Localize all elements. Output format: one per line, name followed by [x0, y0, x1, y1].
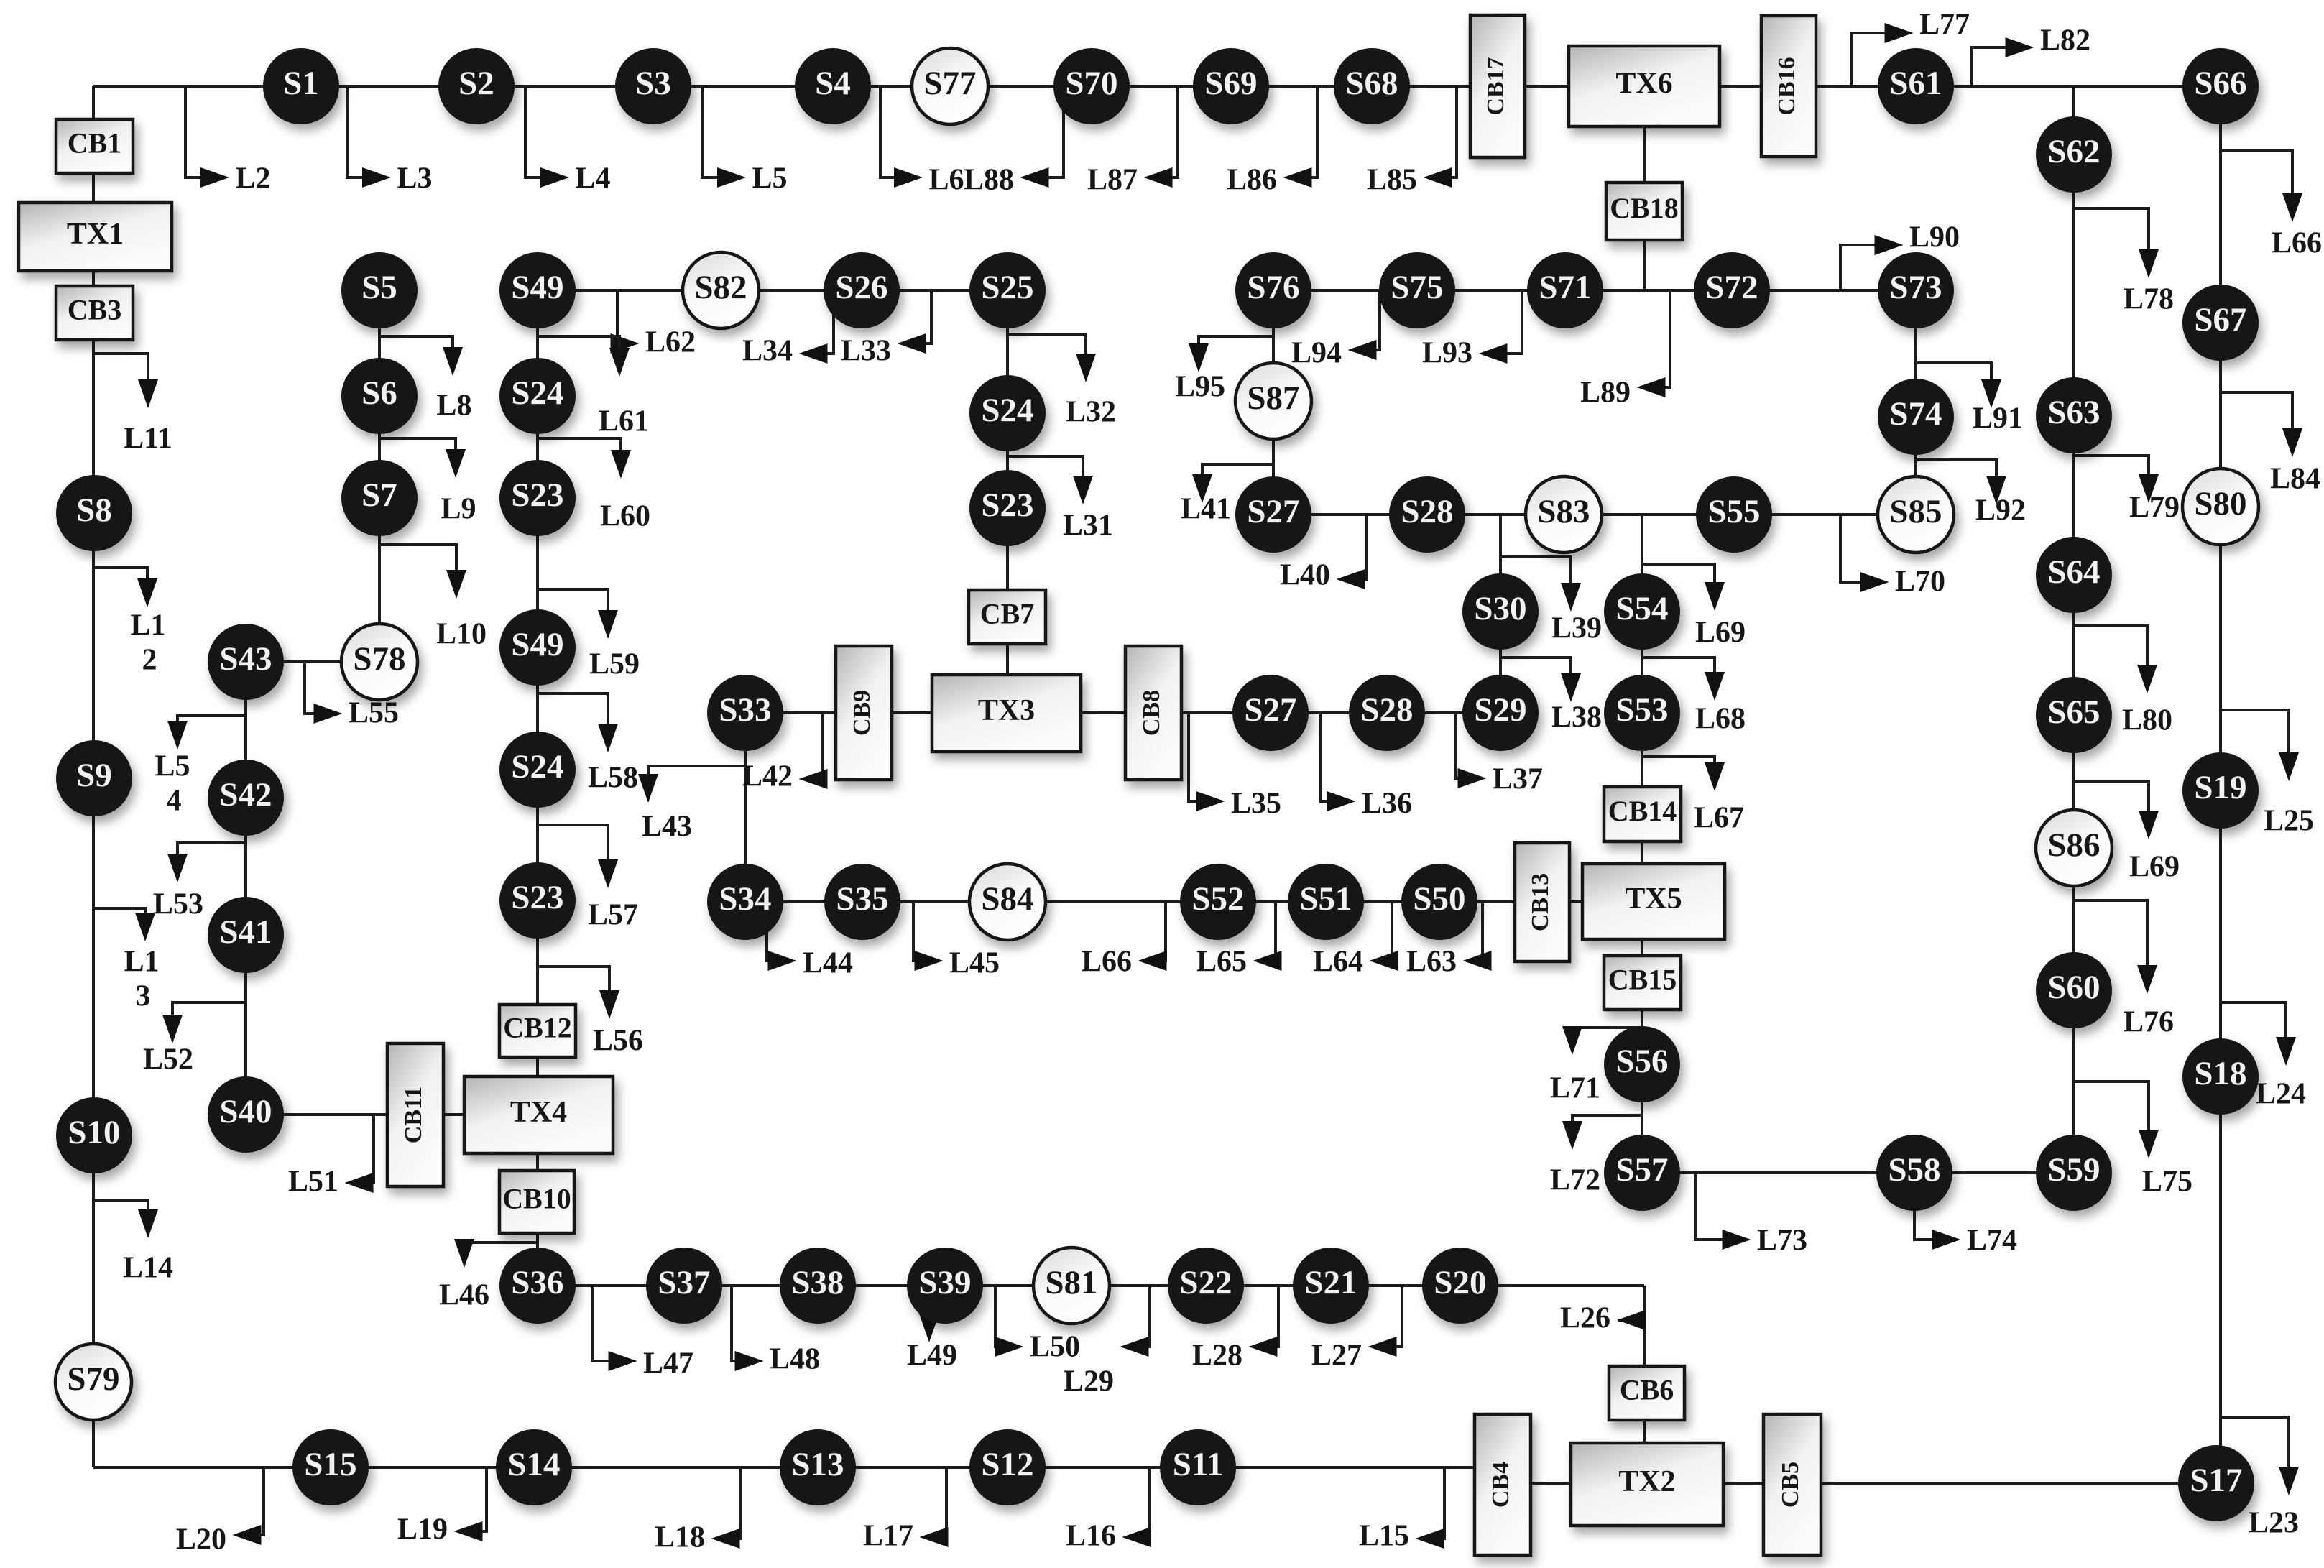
load L14	[94, 1200, 173, 1285]
switch S27 (2)	[1232, 675, 1309, 751]
load L86	[1227, 86, 1317, 197]
svg-text:CB7: CB7	[980, 598, 1035, 630]
load L66	[2221, 151, 2322, 260]
svg-text:S52: S52	[1191, 880, 1244, 918]
switch S66	[2182, 48, 2259, 124]
circuit breaker CB15	[1604, 956, 1681, 1010]
svg-text:CB16: CB16	[1774, 57, 1800, 115]
svg-text:S55: S55	[1707, 493, 1760, 530]
svg-text:L67: L67	[1694, 802, 1744, 835]
tie switch S80	[2182, 469, 2259, 545]
svg-text:S59: S59	[2047, 1151, 2100, 1189]
svg-text:L51: L51	[288, 1166, 338, 1199]
svg-text:L93: L93	[1422, 337, 1472, 370]
circuit breaker CB11	[387, 1043, 443, 1186]
svg-text:S66: S66	[2194, 65, 2246, 102]
wire S76-S87-S27 chain	[1272, 290, 1275, 515]
svg-text:S22: S22	[1179, 1264, 1232, 1301]
svg-text:L24: L24	[2256, 1078, 2306, 1111]
wire S27-S28-S83-S55-S85 bus	[1273, 513, 1916, 516]
svg-text:S23: S23	[511, 879, 563, 916]
svg-text:S43: S43	[219, 640, 272, 678]
switch S23	[499, 460, 576, 536]
svg-text:S2: S2	[458, 65, 494, 102]
wire S73-S74-S85 chain	[1914, 290, 1917, 515]
wire S33 to CB9	[745, 711, 836, 714]
svg-text:S18: S18	[2194, 1055, 2246, 1092]
svg-text:S41: S41	[219, 913, 272, 951]
svg-text:L85: L85	[1367, 164, 1417, 197]
load L10	[379, 545, 487, 651]
wire S34-S35-S84-S52-S51-S50 bus to CB13	[745, 900, 1518, 903]
load L48	[732, 1286, 820, 1376]
svg-text:L95: L95	[1175, 371, 1225, 404]
svg-text:S60: S60	[2047, 969, 2100, 1006]
circuit breaker CB6	[1609, 1366, 1684, 1420]
svg-text:L2: L2	[235, 162, 270, 195]
switch S43	[208, 624, 284, 700]
load L87	[1087, 86, 1178, 197]
switch S35	[824, 864, 900, 940]
svg-text:L28: L28	[1192, 1339, 1242, 1373]
svg-text:L27: L27	[1311, 1339, 1362, 1373]
switch S5	[341, 252, 418, 328]
load L9	[379, 438, 476, 526]
svg-text:CB15: CB15	[1608, 964, 1677, 996]
switch S20	[1422, 1248, 1498, 1324]
tie switch S82	[683, 252, 759, 328]
load L73	[1695, 1173, 1807, 1258]
tie switch S87	[1235, 363, 1311, 439]
transformer TX6	[1569, 46, 1720, 126]
tie switch S79	[55, 1344, 132, 1420]
svg-text:L60: L60	[600, 500, 650, 533]
switch S61	[1878, 48, 1954, 124]
svg-text:TX4: TX4	[510, 1096, 567, 1129]
load L26	[1560, 1302, 1646, 1335]
svg-text:L40: L40	[1280, 559, 1330, 592]
switch S3	[615, 48, 691, 124]
svg-text:L50: L50	[1030, 1331, 1080, 1364]
svg-text:S21: S21	[1304, 1264, 1357, 1301]
svg-text:S68: S68	[1345, 65, 1398, 102]
circuit breaker CB12	[499, 1005, 576, 1057]
load L24	[2221, 1002, 2306, 1111]
svg-text:S40: S40	[219, 1093, 272, 1130]
switch S15	[292, 1429, 369, 1505]
svg-text:S24: S24	[511, 374, 563, 412]
svg-text:S3: S3	[635, 65, 671, 102]
wire CB18 to bus	[1643, 239, 1646, 290]
load L69	[1642, 564, 1746, 650]
svg-text:L38: L38	[1551, 701, 1602, 734]
load L71	[1550, 1026, 1642, 1105]
load L23	[2221, 1417, 2299, 1540]
svg-text:L25: L25	[2264, 805, 2314, 838]
svg-text:L5: L5	[155, 750, 190, 783]
wire TX2 to CB5	[1722, 1482, 1765, 1485]
switch S24 (2)	[499, 732, 576, 808]
svg-text:S24: S24	[511, 748, 563, 785]
svg-text:TX1: TX1	[67, 218, 124, 251]
load L56	[538, 967, 643, 1058]
circuit breaker CB16	[1761, 16, 1816, 157]
svg-text:S34: S34	[719, 880, 771, 918]
wire CB5 to S17	[1820, 1482, 2216, 1485]
wire CB6 to TX2	[1643, 1419, 1646, 1444]
load L61	[538, 336, 649, 438]
svg-text:L1: L1	[124, 946, 159, 979]
load L34	[742, 290, 834, 368]
svg-text:L63: L63	[1406, 946, 1457, 979]
switch S25	[969, 252, 1046, 328]
svg-text:S33: S33	[719, 691, 771, 729]
switch S50	[1401, 864, 1477, 940]
load L67	[1642, 757, 1744, 835]
svg-text:L29: L29	[1064, 1365, 1114, 1398]
circuit breaker CB18	[1606, 183, 1682, 240]
svg-text:L41: L41	[1181, 493, 1231, 526]
svg-text:L64: L64	[1313, 946, 1363, 979]
wire CB4 to TX2	[1529, 1482, 1572, 1485]
switch S76	[1235, 252, 1311, 328]
switch S49 (2)	[499, 609, 576, 686]
svg-text:S58: S58	[1888, 1151, 1940, 1189]
switch S21	[1293, 1248, 1369, 1324]
svg-text:S69: S69	[1204, 65, 1257, 102]
svg-text:L65: L65	[1196, 946, 1247, 979]
tie switch S86	[2036, 810, 2112, 886]
svg-text:S28: S28	[1401, 493, 1453, 530]
wire S62-S63-S64-S65-S86-S60-S59 vertical	[2072, 86, 2075, 1173]
wire TX4 to CB10	[536, 1152, 539, 1172]
switch S53	[1604, 675, 1680, 751]
svg-text:L90: L90	[1909, 221, 1960, 254]
switch S22	[1168, 1248, 1244, 1324]
svg-text:S86: S86	[2047, 826, 2100, 864]
load L52	[143, 1002, 246, 1076]
switch S4	[795, 48, 871, 124]
svg-text:L1: L1	[130, 609, 165, 642]
svg-text:L19: L19	[397, 1513, 448, 1546]
svg-text:S7: S7	[361, 476, 397, 514]
svg-text:S83: S83	[1537, 493, 1590, 530]
switch S27	[1235, 476, 1311, 553]
svg-text:L16: L16	[1066, 1520, 1116, 1553]
switch S54	[1604, 573, 1680, 650]
load L8	[379, 336, 472, 423]
switch S36	[499, 1248, 576, 1324]
svg-text:S54: S54	[1615, 590, 1668, 627]
load L16	[1066, 1467, 1151, 1553]
load L62	[611, 290, 696, 359]
svg-text:L66: L66	[1082, 946, 1132, 979]
svg-text:L62: L62	[645, 326, 696, 359]
svg-text:S35: S35	[836, 880, 888, 918]
load L50	[995, 1286, 1081, 1364]
switch S74	[1878, 379, 1954, 455]
svg-text:S29: S29	[1474, 691, 1526, 729]
wire S76-S75-S71-S72-S73 bus	[1273, 289, 1916, 292]
load L55	[305, 662, 399, 730]
load L91	[1916, 363, 2023, 435]
wire S5-S6-S7-S78 chain	[378, 290, 381, 662]
svg-text:S8: S8	[76, 492, 112, 529]
svg-text:S37: S37	[658, 1264, 710, 1301]
svg-text:L53: L53	[153, 888, 203, 921]
svg-text:L86: L86	[1227, 164, 1277, 197]
svg-text:L58: L58	[588, 762, 638, 795]
wire S49-S24-S23 chain to CB12	[536, 290, 539, 1006]
load L4	[525, 86, 611, 195]
svg-text:S25: S25	[981, 269, 1033, 306]
svg-text:L79: L79	[2129, 492, 2180, 525]
svg-text:4: 4	[167, 785, 182, 818]
svg-text:L57: L57	[588, 899, 638, 932]
svg-text:CB4: CB4	[1488, 1462, 1514, 1508]
svg-text:L36: L36	[1362, 788, 1412, 821]
circuit breaker CB9	[836, 646, 892, 780]
svg-text:L77: L77	[1919, 9, 1970, 42]
svg-text:S87: S87	[1247, 379, 1299, 417]
wire CB11 to TX4	[442, 1113, 464, 1116]
load L95	[1175, 336, 1273, 404]
svg-text:L34: L34	[742, 335, 793, 368]
svg-text:S28: S28	[1360, 691, 1413, 729]
svg-text:S14: S14	[507, 1446, 560, 1483]
svg-text:L68: L68	[1695, 703, 1746, 736]
circuit breaker CB17	[1470, 15, 1525, 157]
wire S25-S24-S23 chain to CB7	[1006, 290, 1009, 591]
load L64	[1313, 902, 1398, 979]
wire S66-S67-S80-S19-S18-S17 vertical	[2219, 86, 2222, 1483]
load L70	[1840, 515, 1945, 599]
switch S7	[341, 460, 418, 536]
svg-text:S79: S79	[67, 1360, 119, 1398]
svg-text:S50: S50	[1413, 880, 1465, 918]
wire bottom feeder bus	[93, 1466, 1477, 1469]
load L53	[153, 843, 246, 921]
switch S26	[824, 252, 900, 328]
load L41	[1181, 464, 1273, 526]
load L63	[1406, 902, 1492, 979]
wire CB15 to S56-S57	[1641, 1008, 1643, 1173]
circuit breaker CB4	[1475, 1414, 1531, 1555]
load L44	[767, 902, 853, 980]
circuit breaker CB13	[1515, 843, 1569, 961]
switch S57	[1604, 1135, 1680, 1211]
load L36	[1321, 713, 1412, 821]
switch S28	[1389, 476, 1465, 553]
svg-text:S10: S10	[68, 1114, 120, 1151]
tie switch S77	[912, 48, 988, 124]
wire CB10 to S36	[536, 1232, 539, 1286]
tie switch S84	[969, 864, 1046, 940]
switch S30	[1462, 573, 1539, 650]
load L59	[538, 589, 640, 681]
switch S42	[208, 760, 284, 836]
svg-text:S64: S64	[2047, 553, 2100, 591]
svg-text:L87: L87	[1087, 164, 1138, 197]
load L65	[1196, 902, 1282, 979]
svg-text:S38: S38	[791, 1264, 844, 1301]
svg-text:L43: L43	[642, 811, 692, 844]
svg-text:TX5: TX5	[1625, 882, 1682, 916]
svg-text:TX6: TX6	[1615, 68, 1672, 101]
transformer TX1	[19, 203, 172, 271]
svg-text:S39: S39	[918, 1264, 971, 1301]
switch S33	[707, 675, 783, 751]
transformer TX4	[464, 1076, 613, 1153]
svg-text:L35: L35	[1231, 788, 1281, 821]
svg-text:L88: L88	[964, 164, 1014, 197]
load L78	[2074, 208, 2174, 316]
svg-text:L23: L23	[2249, 1507, 2299, 1540]
svg-text:L5: L5	[752, 162, 787, 195]
switch S6	[341, 358, 418, 434]
switch S18	[2182, 1038, 2259, 1115]
svg-text:S4: S4	[815, 65, 851, 102]
wire left vertical feeder	[92, 86, 95, 1467]
svg-text:S81: S81	[1045, 1264, 1097, 1301]
transformer TX5	[1582, 864, 1725, 939]
svg-text:L31: L31	[1063, 509, 1113, 543]
svg-text:L46: L46	[439, 1279, 489, 1312]
switch S72	[1694, 252, 1770, 328]
svg-text:S51: S51	[1299, 880, 1352, 918]
load L40	[1280, 515, 1367, 592]
svg-text:L94: L94	[1291, 337, 1342, 370]
switch S23 (3)	[969, 470, 1046, 546]
load L88	[964, 86, 1064, 197]
svg-text:S82: S82	[694, 269, 747, 306]
load L6	[880, 86, 964, 197]
switch S75	[1379, 252, 1455, 328]
svg-text:S42: S42	[219, 776, 272, 813]
load L13	[94, 908, 160, 1013]
svg-text:L56: L56	[593, 1025, 643, 1058]
svg-text:S67: S67	[2194, 301, 2246, 338]
svg-text:L49: L49	[907, 1339, 957, 1373]
load L72	[1550, 1115, 1642, 1197]
svg-text:CB18: CB18	[1610, 192, 1679, 224]
svg-text:L72: L72	[1550, 1164, 1600, 1197]
circuit breaker CB3	[56, 286, 133, 340]
tie switch S83	[1526, 476, 1602, 553]
svg-text:L44: L44	[803, 947, 853, 980]
wire CB12 to TX4	[536, 1056, 539, 1078]
switch S34	[707, 864, 783, 940]
svg-text:L59: L59	[589, 648, 640, 681]
svg-text:L20: L20	[176, 1523, 226, 1557]
wire TX3 to CB8	[1081, 711, 1125, 714]
switch S60	[2036, 952, 2112, 1028]
svg-text:L3: L3	[397, 162, 432, 195]
switch S64	[2036, 537, 2112, 613]
svg-text:CB10: CB10	[502, 1183, 571, 1215]
svg-text:2: 2	[142, 644, 157, 677]
load L43	[638, 766, 745, 844]
svg-text:S15: S15	[304, 1446, 356, 1483]
load L84	[2221, 392, 2320, 496]
svg-text:S76: S76	[1247, 269, 1299, 306]
svg-text:S57: S57	[1615, 1151, 1668, 1189]
svg-text:L91: L91	[1973, 402, 2023, 435]
load L46	[439, 1239, 538, 1312]
svg-text:S6: S6	[361, 374, 397, 412]
svg-text:CB9: CB9	[849, 690, 875, 736]
svg-text:S19: S19	[2194, 769, 2246, 806]
load L15	[1359, 1467, 1444, 1553]
switch S71	[1527, 252, 1603, 328]
load L58	[538, 693, 638, 795]
switch S51	[1288, 864, 1364, 940]
svg-text:L18: L18	[655, 1521, 705, 1554]
switch S68	[1334, 48, 1410, 124]
switch S1	[263, 48, 339, 124]
switch S59	[2036, 1135, 2112, 1211]
svg-text:S63: S63	[2047, 394, 2100, 431]
load L92	[1916, 460, 2026, 527]
load L60	[538, 438, 650, 533]
load L37	[1456, 713, 1543, 796]
svg-text:L71: L71	[1550, 1072, 1600, 1105]
svg-text:S71: S71	[1539, 269, 1591, 306]
wire S40 to CB11	[246, 1113, 389, 1116]
svg-text:L45: L45	[949, 947, 1000, 980]
svg-text:S78: S78	[353, 640, 405, 678]
switch S49	[499, 252, 576, 328]
svg-text:S49: S49	[511, 626, 563, 663]
svg-text:L33: L33	[841, 335, 891, 368]
svg-text:S74: S74	[1889, 395, 1942, 433]
wire S43 to S78	[246, 660, 379, 663]
switch S70	[1053, 48, 1130, 124]
wire S83 branch to S30-S29	[1499, 515, 1502, 713]
svg-text:L39: L39	[1551, 612, 1602, 645]
switch S39	[907, 1248, 983, 1324]
svg-text:S36: S36	[511, 1264, 563, 1301]
svg-text:S61: S61	[1889, 65, 1942, 102]
svg-text:S70: S70	[1065, 65, 1117, 102]
switch S65	[2036, 677, 2112, 753]
svg-text:CB14: CB14	[1608, 795, 1677, 827]
svg-text:L84: L84	[2270, 463, 2320, 496]
switch S69	[1193, 48, 1269, 124]
svg-text:CB11: CB11	[400, 1087, 427, 1143]
wire S43-S42-S41-S40 chain	[244, 662, 247, 1115]
load L11	[94, 354, 172, 456]
load L17	[863, 1467, 949, 1553]
switch S67	[2182, 285, 2259, 361]
svg-text:L92: L92	[1975, 494, 2026, 527]
load L20	[176, 1467, 264, 1557]
svg-text:L76: L76	[2124, 1006, 2174, 1039]
switch S38	[780, 1248, 856, 1324]
svg-text:S65: S65	[2047, 693, 2100, 731]
load L80	[2074, 626, 2172, 737]
switch S12	[969, 1429, 1046, 1505]
switch S24	[499, 358, 576, 434]
svg-text:L6: L6	[928, 164, 964, 197]
svg-text:L10: L10	[436, 618, 487, 651]
switch S29	[1462, 675, 1539, 751]
svg-text:S80: S80	[2194, 485, 2246, 522]
svg-text:L73: L73	[1757, 1225, 1807, 1258]
svg-text:S11: S11	[1173, 1446, 1224, 1483]
load L79	[2074, 456, 2180, 525]
svg-text:CB3: CB3	[68, 294, 122, 326]
